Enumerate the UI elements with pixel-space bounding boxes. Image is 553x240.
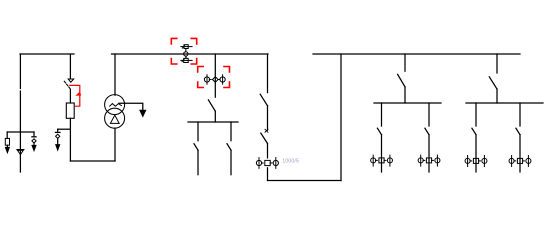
wire V2 below fuse [69,118,71,161]
CT set on tie feeder [256,158,278,169]
breaker (open blade) on mid feeder [208,100,215,111]
breaker blade R1 [398,74,405,87]
wire R2 sub-feeder right [519,103,521,126]
arrester (gap type, on bus B right end) [32,132,36,150]
bus A (left 10kV bus) [20,53,74,55]
wire V1 lower to ground lead [19,132,21,172]
CT set R2 right [509,156,531,167]
wire bottom link to transformer [70,160,115,162]
CT set R1 left [371,155,393,166]
wire tie bottom run [267,168,269,181]
PT set on bus M (fuse glyphs) [181,45,192,63]
wire feeder R2 riser [496,54,498,73]
wire R2 sub-feeder left [475,103,477,126]
x junction marker [265,129,268,132]
disconnector blade tie lower [261,133,268,143]
wire R1 sub-feeder left [381,103,383,126]
middle rhombus on bus [184,52,188,56]
ground (earth electrode on V1) [17,150,24,155]
svg-text:1000/5: 1000/5 [282,158,299,164]
disconnector dashed blade [64,81,70,89]
transformer T1 (two winding) [105,95,125,129]
disconnector blade tie upper [260,94,267,106]
bus R2 sub-bus [466,102,543,104]
wire mid sub-feeder right [230,122,232,141]
wire V1 upper segment [19,54,21,89]
breaker blade R2 [489,77,497,89]
wire branch to arrester near fuse [58,128,71,130]
bottom fuse glyph [181,59,192,61]
bus M (middle bus) [112,53,269,55]
bus B (PT sub-bus) [7,131,34,133]
wire R1 sub-feeder right [428,103,430,126]
switch blade [425,128,429,135]
bus mid sub-bus [188,121,238,123]
wire V1 below gap [19,91,21,132]
CT set R2 left [465,156,487,167]
CT set (3-phase) on mid feeder [204,75,225,84]
switch blade [472,128,476,135]
wire tie feeder from bus M [267,54,269,93]
wire to mid sub-bus [214,111,216,122]
transformer T1 riser [114,54,116,95]
arrester F1 (valve arrester with rectangle) [5,132,9,152]
switch blade mid sub-feeder left [194,144,198,151]
CT set R1 right [418,155,440,166]
disconnector (triangle) on V2 [68,79,74,82]
bus R (right bus) [313,53,520,55]
switch blade [377,128,381,135]
bus R1 sub-bus [374,102,441,104]
delta winding symbol [110,115,119,123]
zigzag winding symbol [110,104,122,107]
wire V2 from bus A [69,54,71,78]
wire V2 to fuse [69,89,71,103]
wire mid sub-feeder left [197,122,199,141]
arrester (gap type, on transformer fuse branch) [55,129,60,150]
top fuse glyph [181,46,192,48]
red annotation hook at fuse [70,85,81,106]
switch blade mid sub-feeder right [227,144,231,151]
load tap arrow from transformer [119,103,146,116]
wire mid feeder riser [214,54,216,97]
fuse (rectangle) [66,103,74,118]
selection brackets (red) around CT set [198,67,230,88]
wire transformer bottom [114,128,116,161]
wire feeder R1 riser [404,54,406,71]
selection brackets (red) around PT set [171,38,196,64]
switch blade [516,128,520,135]
